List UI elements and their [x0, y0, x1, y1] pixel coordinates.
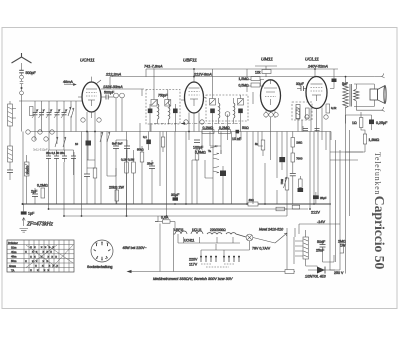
tone switch contact b — [213, 166, 223, 204]
UCH11 anode lead up — [92, 77, 102, 84]
AVC resistor 0.2M b — [219, 130, 231, 134]
IF note arrow — [22, 218, 25, 227]
resistor 20k 2W — [115, 186, 119, 204]
svg-text:31m: 31m — [11, 245, 17, 249]
UBF11 electrodes — [189, 88, 200, 106]
AVC line arrowhead — [181, 122, 185, 125]
svg-text:40Ω: 40Ω — [249, 198, 254, 202]
heater return line — [178, 234, 240, 243]
diode load resistors — [251, 77, 260, 88]
UM11 pin circles — [264, 113, 278, 117]
resistor 12k — [262, 70, 271, 74]
oscillator coil L3 hatched — [8, 146, 13, 170]
grid resistor 0.2M vertical — [296, 109, 300, 119]
svg-text:250 V: 250 V — [334, 271, 344, 275]
svg-text:50Ω: 50Ω — [242, 126, 249, 130]
svg-text:5nF 5nF: 5nF 5nF — [112, 142, 123, 146]
dropper resistor tapped — [294, 230, 309, 266]
svg-text:10: 10 — [75, 142, 79, 146]
cap 25nF mid — [149, 160, 155, 204]
svg-text:Drücker: Drücker — [8, 241, 18, 245]
resistor 1.9M — [363, 134, 366, 144]
external connection arrow bottom — [356, 107, 384, 112]
svg-text:1,9MΩ: 1,9MΩ — [369, 138, 380, 142]
UBF11 pin leads — [189, 113, 199, 132]
svg-text:240V-52mA: 240V-52mA — [307, 65, 328, 69]
svg-text:212,2mA: 212,2mA — [105, 73, 122, 77]
svg-text:Telefunken: Telefunken — [373, 152, 382, 195]
tone switch contact a — [213, 150, 221, 160]
svg-text:41m: 41m — [11, 250, 17, 254]
resistor 1 ohm — [360, 118, 363, 128]
resistor 2M psu — [340, 244, 344, 253]
svg-text:0,2MΩ: 0,2MΩ — [219, 126, 230, 130]
svg-text:0,25μF: 0,25μF — [376, 121, 388, 125]
output transformer core — [350, 84, 352, 107]
svg-text:× ×× ××: × ×× ×× — [25, 259, 50, 263]
AVC dash-dot line — [154, 123, 240, 125]
tone cap black — [220, 171, 226, 177]
cap black lower — [298, 188, 304, 192]
IF2 trimmer a — [210, 99, 216, 106]
selector dashed links — [201, 264, 234, 267]
cap 25uF — [313, 192, 319, 204]
transformer wires — [346, 77, 375, 124]
svg-text:1000Ω: 1000Ω — [26, 166, 30, 174]
tuning gang trimmer C4 — [54, 108, 60, 120]
coupling cap 30uF UCL — [297, 86, 307, 91]
cap 0.1uF black mid — [146, 132, 151, 151]
IF transformer II dashed box — [206, 95, 248, 121]
padding capacitor black — [86, 132, 92, 161]
svg-text:0,1: 0,1 — [143, 135, 147, 139]
vertical drop wires right — [287, 115, 363, 274]
switch wafer contacts row — [26, 130, 54, 141]
svg-text:50m: 50m — [11, 259, 17, 263]
svg-text:750pF: 750pF — [158, 94, 168, 98]
wire trimmer bus — [35, 100, 71, 102]
UCL11 pin leads — [311, 108, 322, 132]
cap 5nF UM — [279, 132, 285, 171]
vertical drop wires left section — [23, 132, 95, 217]
IF2 trimmer b — [238, 99, 244, 106]
IF1 trimmer b — [165, 100, 171, 107]
UCH11 pin circles bottom — [81, 118, 101, 122]
cap row c1 — [46, 156, 51, 158]
svg-text:× ×× ×××: × ×× ××× — [25, 250, 54, 254]
svg-text:UBF11: UBF11 — [174, 228, 184, 232]
svg-text:Capriccio 50: Capriccio 50 — [372, 196, 387, 270]
oscillator coil assembly left lower — [25, 155, 30, 204]
mains lead left — [155, 216, 175, 228]
svg-text:UCL11: UCL11 — [192, 228, 202, 232]
wire antenna node to grid bus — [19, 100, 82, 102]
coupling cap 500pF tube right — [101, 95, 114, 100]
wires trimmer tops to grid bus — [35, 101, 71, 108]
UCL11 pin circles — [305, 115, 328, 119]
supply bus 212V — [48, 208, 308, 210]
voltage selector pins group a — [201, 257, 216, 262]
svg-text:Gram: Gram — [9, 264, 17, 268]
svg-text:48mA: 48mA — [63, 80, 73, 84]
grid return bus — [30, 131, 331, 133]
output stage feed wires — [330, 89, 334, 141]
resistor 0.5M right — [292, 205, 300, 209]
external connection arrow top — [374, 73, 384, 78]
psu wires right — [295, 224, 340, 270]
svg-text:Ta: Ta — [208, 149, 211, 153]
svg-text:50Ω: 50Ω — [280, 179, 284, 184]
cap row c2 — [54, 156, 59, 158]
UBF11 tube envelope — [185, 82, 204, 113]
dial lamp — [246, 234, 253, 241]
wave band resistor left — [30, 107, 34, 116]
fuse 0.6A — [155, 220, 175, 223]
HT rail 212 line — [110, 77, 374, 89]
svg-text:0,5MΩ: 0,5MΩ — [239, 84, 250, 88]
chassis ground symbol — [20, 229, 29, 233]
UM11 tube envelope — [261, 80, 281, 111]
extra horizontal jogs — [107, 146, 263, 178]
svg-text:25n 0,1 50 25n: 25n 0,1 50 25n — [46, 151, 65, 155]
svg-text:45W bei 220V~: 45W bei 220V~ — [123, 246, 147, 250]
svg-text:UCH11: UCH11 — [80, 58, 95, 63]
svg-text:212V: 212V — [311, 211, 320, 215]
svg-text:30μF: 30μF — [171, 193, 180, 197]
svg-text:1324-33mA: 1324-33mA — [103, 85, 123, 89]
IF2 cap right — [238, 109, 243, 114]
svg-text:2μF: 2μF — [31, 190, 38, 194]
power box outline — [174, 228, 288, 272]
AF switch contact right — [284, 177, 288, 188]
svg-text:1MΩ: 1MΩ — [296, 141, 302, 145]
tuning gang trimmer C5 — [61, 108, 67, 120]
UCH11 tube envelope — [82, 82, 101, 112]
selector feed wires — [201, 244, 239, 257]
main chassis bus — [23, 203, 332, 205]
coil tap wires — [12, 109, 16, 119]
svg-text:UM11: UM11 — [261, 57, 273, 62]
IF transformer I dashed box — [146, 90, 180, 125]
band switch contact S3 — [71, 108, 74, 118]
svg-text:1μF: 1μF — [28, 212, 35, 216]
svg-text:25μF: 25μF — [320, 196, 327, 200]
svg-text:741-7,8mA: 741-7,8mA — [144, 65, 163, 69]
valve socket diagram — [91, 240, 113, 262]
additional drop wires for density — [101, 98, 271, 204]
svg-text:25nF: 25nF — [147, 162, 154, 166]
svg-text:500pF: 500pF — [26, 71, 37, 75]
bus resistor 40 ohm — [248, 202, 258, 206]
tuning gang trimmer C1 — [32, 108, 38, 120]
svg-text:5n: 5n — [255, 142, 259, 146]
IF1 trimmer a — [151, 100, 157, 107]
table diagonals — [26, 245, 73, 268]
resistor 7000 — [291, 153, 295, 173]
svg-text:ZF=473kHz: ZF=473kHz — [26, 222, 53, 228]
tiny label texts — [8, 57, 388, 282]
svg-text:212V-8mA: 212V-8mA — [193, 72, 212, 76]
IF1 primary winding — [158, 104, 159, 119]
IF caps 10^4 pair — [303, 129, 320, 131]
bus cap 50 — [236, 130, 240, 134]
resistor 50k left — [93, 168, 97, 178]
extra wire horizontals mid — [87, 132, 302, 169]
UCL11 electrodes — [311, 84, 323, 101]
osc switch contact b — [107, 132, 110, 142]
decoupling caps 5nF pair — [113, 140, 130, 204]
svg-text:50kΩ: 50kΩ — [137, 148, 144, 152]
wires trimmer bottoms down — [35, 116, 71, 132]
output transformer secondary — [354, 89, 359, 101]
svg-text:500pF: 500pF — [104, 91, 115, 95]
AVC resistor 0.2M a — [202, 130, 214, 134]
screen resistor pair — [125, 150, 136, 216]
svg-text:1Ω: 1Ω — [352, 121, 357, 125]
electrolytic 1uF chassis — [21, 204, 27, 215]
svg-text:220V: 220V — [189, 258, 198, 262]
rectifier diode — [308, 267, 335, 274]
tuning gang trimmer C2 — [39, 108, 45, 120]
voltage selector pin heads b — [223, 256, 240, 258]
cap 50nF psu — [320, 240, 326, 252]
svg-text:50nF: 50nF — [317, 240, 326, 244]
svg-text:×× × ×××: ×× × ××× — [30, 255, 59, 259]
svg-text:UCL11: UCL11 — [305, 57, 319, 62]
svg-text:0,2MΩ: 0,2MΩ — [37, 184, 48, 188]
UCH11 grid cap lead — [78, 97, 82, 101]
UCL11 tube envelope — [306, 77, 327, 109]
voltage selector pins group b — [224, 257, 239, 262]
osc line 1324 — [101, 88, 144, 90]
loudspeaker — [370, 86, 386, 104]
IF1 wires — [150, 69, 175, 124]
svg-text:100pF: 100pF — [193, 146, 204, 150]
svg-text:30μF: 30μF — [296, 82, 304, 86]
svg-text:0,6A: 0,6A — [161, 216, 169, 220]
svg-text:Newi 2410-510: Newi 2410-510 — [259, 228, 283, 232]
output transformer primary — [343, 84, 348, 108]
input coil L1 hatched — [8, 101, 13, 146]
voltage selector pin heads a — [200, 256, 217, 258]
IF2 pin circle — [225, 112, 230, 117]
svg-text:Meßinstrument 333Ω/V, Bereich: Meßinstrument 333Ω/V, Bereich 300V bzw 3… — [153, 277, 233, 281]
band switch contact S1 — [68, 104, 71, 116]
volume control with switch — [195, 146, 199, 204]
UCH11 electrodes — [86, 89, 97, 106]
UM11 pin leads — [266, 111, 275, 119]
svg-text:1/2NTGL 4E3: 1/2NTGL 4E3 — [305, 275, 326, 279]
cap row c3 — [62, 156, 67, 158]
vertical drop wires center — [127, 114, 278, 216]
svg-text:0,2MΩ: 0,2MΩ — [203, 126, 214, 130]
svg-text:0,1M 0,3M: 0,1M 0,3M — [121, 158, 135, 162]
osc switch contact a — [100, 132, 103, 142]
IF2 secondary winding — [234, 103, 235, 118]
svg-text:20kΩ 2W: 20kΩ 2W — [109, 186, 124, 190]
resistor 0.2 lower — [299, 176, 303, 192]
svg-text:-14V: -14V — [317, 220, 325, 224]
band switch contact S2 — [55, 137, 66, 147]
antenna — [12, 53, 32, 70]
svg-text:10 nF: 10 nF — [232, 137, 242, 141]
current arrow 48mA — [64, 84, 76, 86]
grid resistor 1M UCL — [291, 132, 295, 154]
IF2 wires — [204, 69, 241, 124]
svg-text:117V: 117V — [189, 263, 198, 267]
grid stopper UM wires — [247, 69, 261, 104]
svg-text:220/2000Ω: 220/2000Ω — [210, 228, 226, 232]
wire antenna drop — [21, 101, 23, 132]
svg-text:TA: TA — [11, 268, 15, 272]
svg-text:49m: 49m — [11, 255, 17, 259]
UM11 electrodes — [264, 80, 277, 105]
svg-text:1,5MΩ: 1,5MΩ — [239, 77, 250, 81]
AF coupling coil — [296, 105, 300, 119]
extra wire drops mid — [57, 89, 303, 204]
padder capacitor — [7, 170, 13, 180]
cap 5nF output — [332, 69, 337, 89]
UBF11 pin circles — [184, 120, 204, 124]
heater series resistor 50 — [276, 207, 287, 211]
IF1 cap right — [173, 109, 178, 114]
svg-text:Sockelschaltung: Sockelschaltung — [87, 265, 113, 269]
svg-text:× × ××: × × ×× — [30, 269, 51, 273]
antenna capacitor 500pF — [19, 70, 24, 75]
svg-text:25nF: 25nF — [316, 249, 325, 253]
volume pot resistor — [306, 108, 310, 118]
cap row wires — [49, 150, 74, 166]
IF2 primary winding — [219, 103, 220, 118]
tuning gang trimmer C3 — [46, 108, 52, 120]
UCH11 pin leads — [87, 112, 95, 132]
cap row c4 — [71, 156, 76, 158]
resistor 50 vertical right — [285, 178, 289, 190]
UBF11 side lead — [181, 99, 185, 101]
ballast wire arrow — [239, 233, 287, 250]
resistor 50k mid — [140, 146, 144, 204]
svg-text:2MΩ1W: 2MΩ1W — [338, 240, 346, 248]
svg-text:× × ×××: × × ××× — [35, 264, 60, 268]
resistor 0.2M left — [41, 188, 45, 198]
heater chain winding — [174, 231, 247, 237]
mains cord line — [127, 270, 296, 273]
svg-text:UCH11: UCH11 — [184, 239, 194, 243]
cathode resistor UCL — [326, 104, 330, 113]
mains lead vertical — [159, 224, 161, 272]
svg-text:UBF11: UBF11 — [183, 58, 197, 63]
svg-text:7000: 7000 — [296, 157, 303, 161]
wires right column — [346, 112, 372, 152]
AF coupling network box dashed — [292, 102, 312, 120]
capacitor 0.25uF — [369, 120, 374, 125]
wire grid drop — [75, 101, 77, 132]
AF switch contact — [210, 146, 218, 148]
svg-text:0,2k: 0,2k — [331, 106, 337, 110]
HT rail 741 line — [146, 69, 338, 77]
coupling cap 2.5nF — [290, 174, 296, 205]
IF1 cap left — [148, 109, 153, 114]
electrolytic 30uF — [173, 197, 179, 200]
screen resistor UM — [261, 140, 265, 156]
cap 10^4pF — [84, 168, 90, 204]
resistor 760 — [161, 132, 165, 153]
wire tube top to rail — [92, 69, 316, 82]
svg-text:0,5MΩ: 0,5MΩ — [195, 151, 206, 155]
IF2 cap left — [210, 109, 215, 114]
wires magic eye feed — [248, 66, 277, 86]
bias line -14V — [299, 223, 340, 225]
interference cap — [285, 270, 294, 274]
heater bus — [64, 215, 287, 217]
wire — [87, 160, 95, 204]
pin circles UCH11 — [114, 93, 125, 98]
cap 100pF — [194, 140, 200, 142]
svg-text:12k: 12k — [255, 71, 261, 75]
svg-text:×× ××××: ×× ×××× — [30, 246, 56, 250]
svg-text:79V 0,7A/V: 79V 0,7A/V — [252, 247, 271, 251]
valve table — [7, 240, 74, 272]
IF1 secondary winding — [169, 104, 170, 119]
cap 2uF — [32, 188, 38, 204]
svg-text:5nF: 5nF — [342, 82, 348, 86]
antenna coupling switch — [20, 75, 24, 101]
